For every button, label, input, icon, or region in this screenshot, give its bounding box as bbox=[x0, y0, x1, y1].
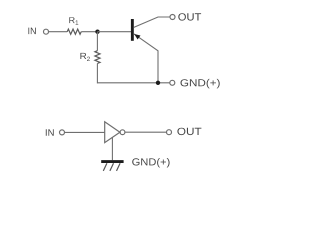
ground hatch 2 bbox=[110, 163, 114, 171]
terminal OUT (top) bbox=[170, 15, 175, 20]
terminal IN (top) bbox=[44, 29, 49, 34]
ground bar bbox=[101, 160, 123, 163]
resistor R2 bbox=[95, 51, 100, 64]
label R2 bbox=[80, 53, 86, 59]
transistor Q1 emitter arrowhead bbox=[134, 34, 140, 40]
ground hatch 3 bbox=[117, 163, 121, 171]
wire node A down to R2 bbox=[96, 32, 98, 51]
inverter U1 output bubble bbox=[120, 130, 125, 135]
label IN (bottom circuit) bbox=[46, 129, 54, 136]
wire IN to inverter bbox=[65, 131, 105, 133]
wire inverter to ground bbox=[111, 137, 113, 160]
wire node A to transistor base bbox=[98, 31, 132, 33]
resistor R1 bbox=[67, 29, 81, 34]
junction emitter/rail bbox=[156, 81, 160, 85]
transistor Q1 collector wire to OUT bbox=[134, 17, 170, 27]
label GND(+) (top) bbox=[181, 79, 220, 89]
label R1 bbox=[69, 17, 74, 23]
label OUT (top) bbox=[178, 13, 201, 20]
label IN (top circuit) bbox=[28, 28, 35, 34]
node A junction dot bbox=[95, 30, 99, 34]
wire R2 to bottom rail bbox=[96, 64, 98, 84]
bottom rail wire bbox=[97, 82, 169, 84]
wire inverter to OUT bbox=[125, 131, 166, 133]
wire IN to R1 bbox=[49, 31, 67, 33]
label OUT (bottom) bbox=[177, 128, 201, 135]
wire R1 to node A bbox=[81, 31, 97, 33]
terminal IN (bottom) bbox=[60, 130, 65, 135]
transistor Q1 base bar bbox=[131, 19, 134, 41]
terminal OUT (bottom) bbox=[167, 130, 172, 135]
label GND(+) (bottom) bbox=[132, 158, 169, 168]
ground hatch 1 bbox=[103, 163, 107, 171]
transistor Q1 emitter wire down to rail bbox=[134, 34, 158, 83]
inverter U1 triangle bbox=[105, 122, 120, 143]
terminal GND (top) bbox=[170, 80, 175, 85]
